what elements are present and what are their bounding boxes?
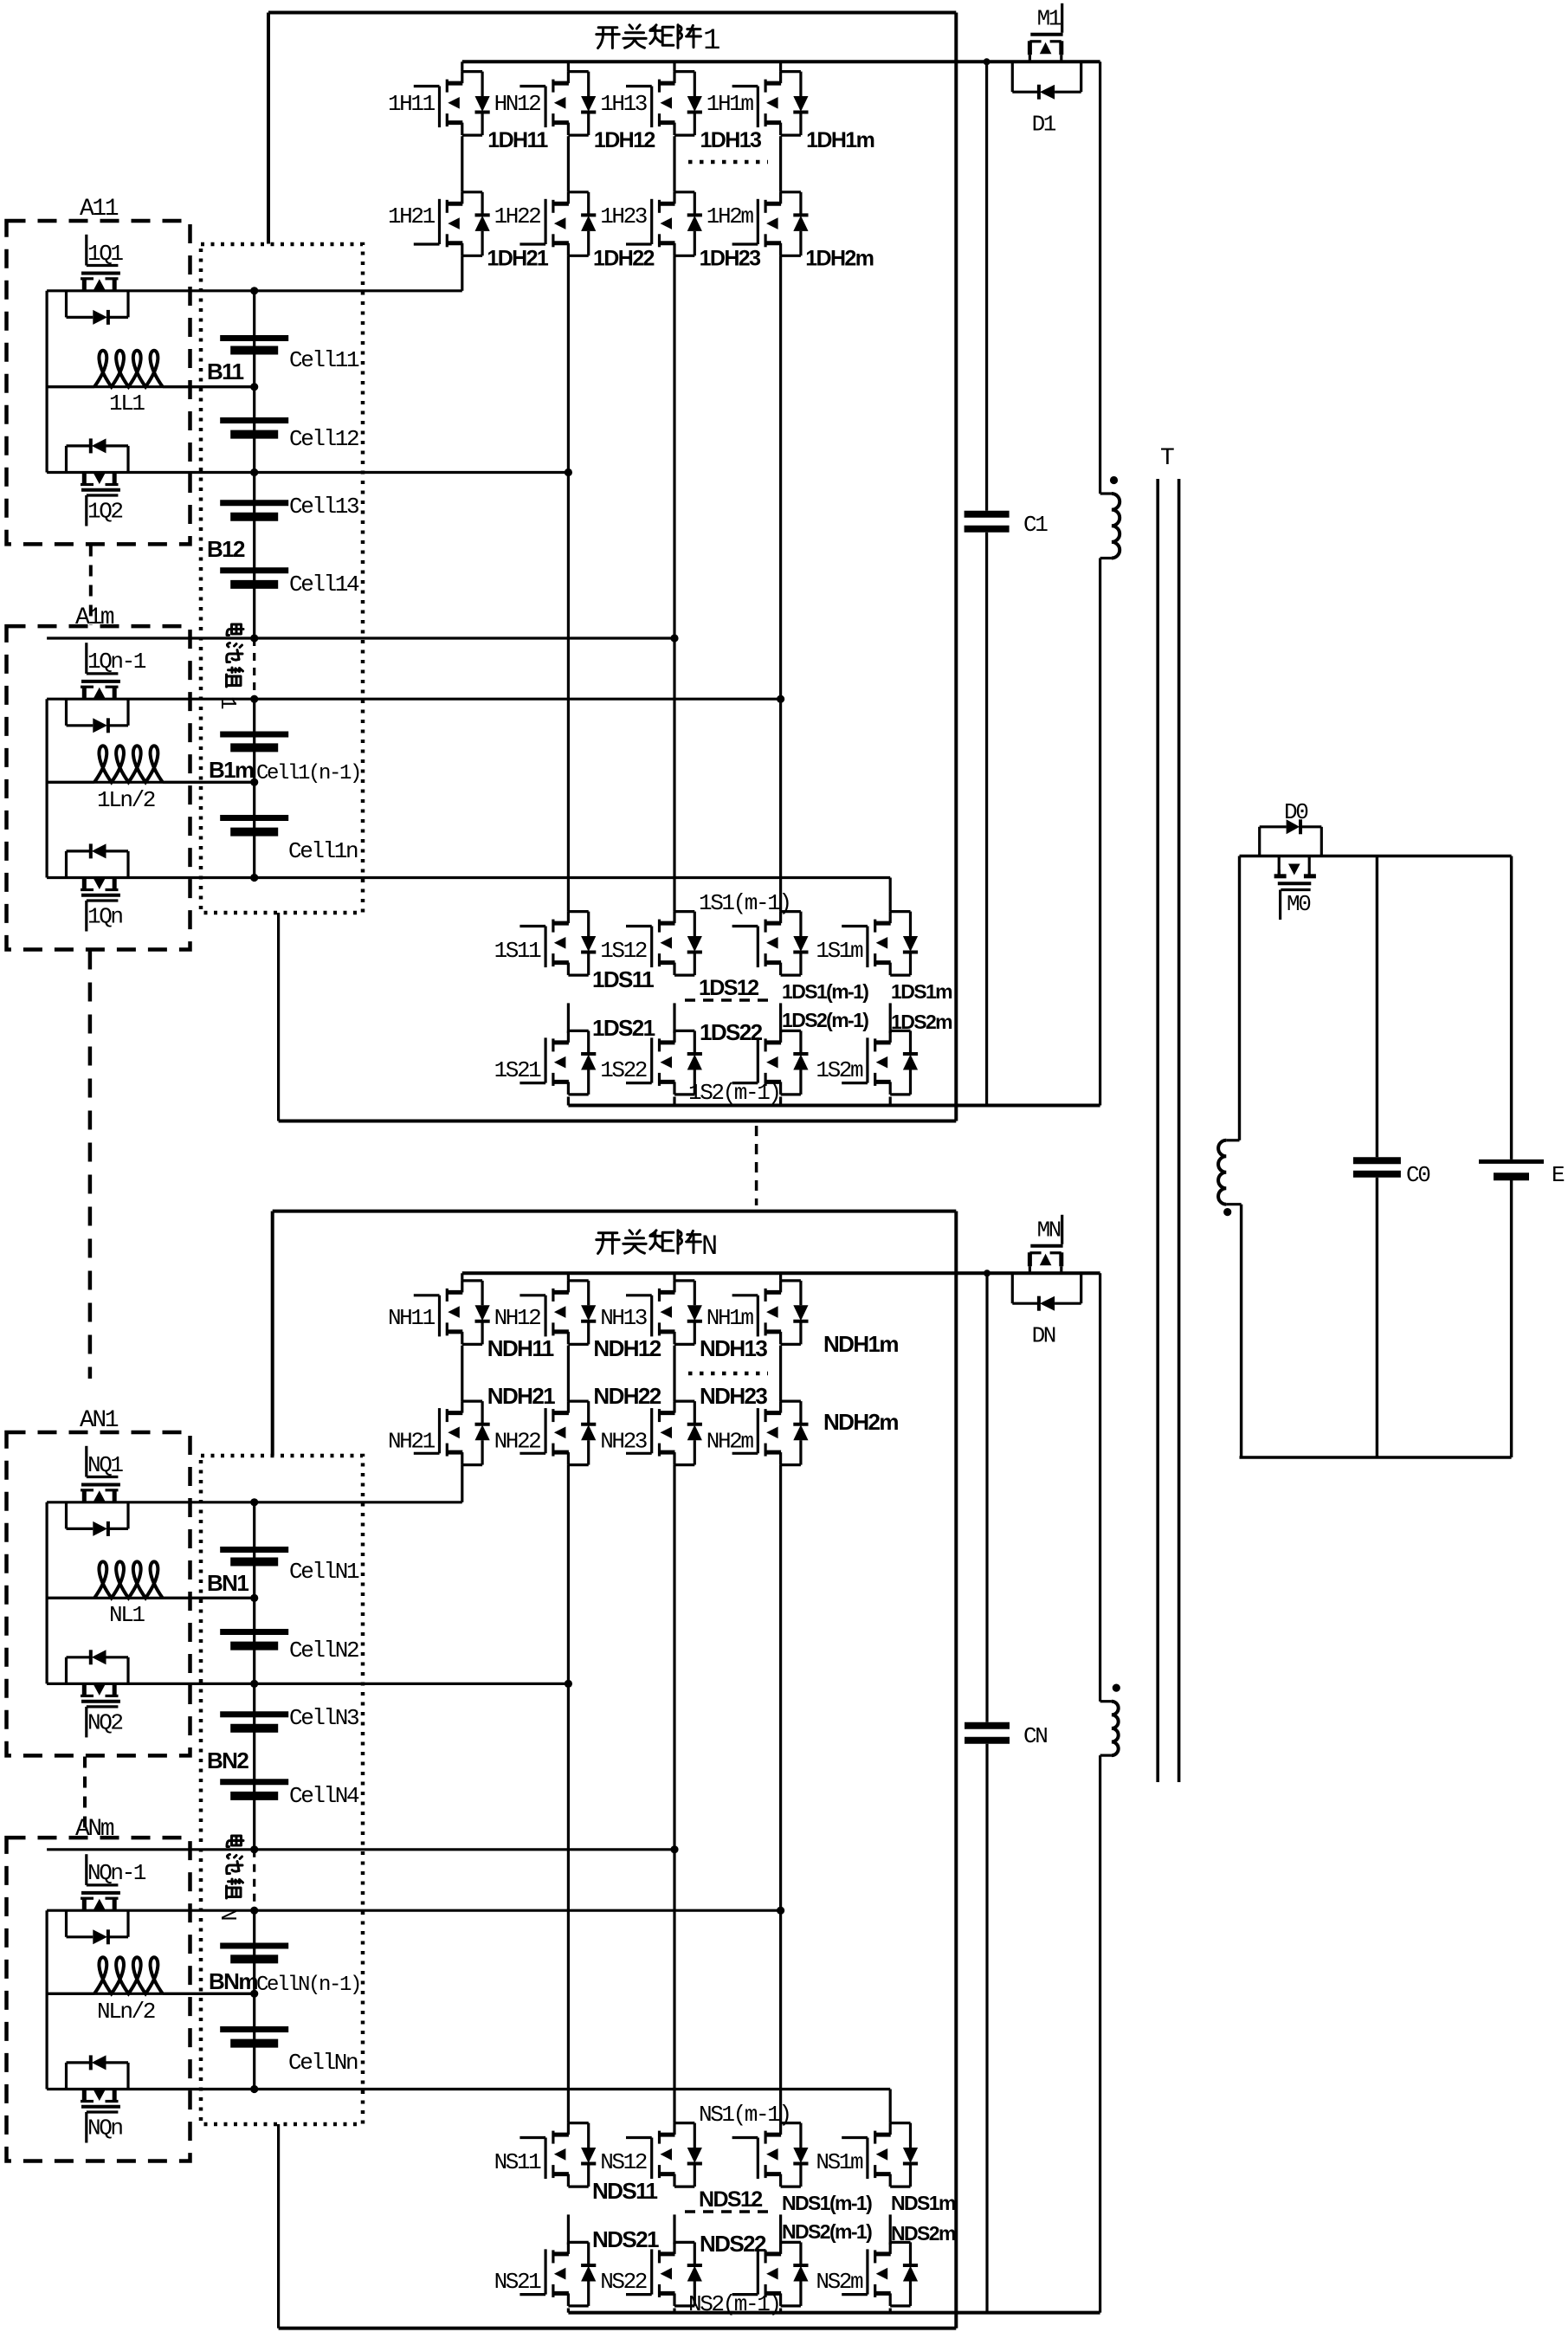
transistor 1H23 bbox=[626, 242, 652, 245]
column ellipsis dashes in S matrix N bbox=[685, 2210, 772, 2213]
junction BNm bbox=[250, 1990, 258, 1998]
body diode of NQ2 bbox=[65, 1657, 68, 1684]
svg-text:CellN(n-1): CellN(n-1) bbox=[256, 1974, 360, 1997]
ellipsis dashed below A1m bbox=[88, 951, 93, 1379]
transistor M1 bbox=[1061, 3, 1063, 33]
wire C0 branch lower bbox=[1376, 1178, 1378, 1457]
junction B1m bbox=[250, 778, 258, 786]
svg-text:NH2m: NH2m bbox=[707, 1428, 754, 1454]
svg-text:CellN4: CellN4 bbox=[289, 1783, 359, 1809]
junction rail col2 tap2 N bbox=[565, 1680, 572, 1688]
svg-text:1DH11: 1DH11 bbox=[487, 128, 548, 152]
polarity dot secondary bbox=[1223, 1208, 1231, 1216]
battery cell CellN(n-1) bbox=[220, 1943, 288, 1949]
ellipsis dashed between AN1 and ANm bbox=[83, 1757, 87, 1838]
wire MN drain to primary N bbox=[1099, 1273, 1101, 1701]
transformer core bar left bbox=[1156, 479, 1159, 1782]
transistor NH11 bbox=[414, 1294, 440, 1296]
wire S col4 drain from bus corner bbox=[889, 878, 892, 912]
svg-text:1S22: 1S22 bbox=[600, 1057, 647, 1083]
svg-text:1DH21: 1DH21 bbox=[487, 247, 549, 271]
wire output loop bottom edge bbox=[1240, 1456, 1512, 1458]
transformer core bar right bbox=[1178, 479, 1181, 1782]
diode D of 1H13 bbox=[694, 72, 696, 96]
column ellipsis dots in H matrix bbox=[688, 160, 768, 165]
transistor 1H11 bbox=[414, 85, 440, 87]
transistor 1S21 bbox=[519, 1082, 545, 1084]
svg-text:1S1m: 1S1m bbox=[816, 938, 863, 964]
junction battery top bbox=[250, 287, 258, 294]
transistor NS22 bbox=[626, 2293, 652, 2296]
inductor NLn/2 bbox=[47, 1993, 94, 1995]
diode D of 1S14 bbox=[909, 912, 912, 936]
wire tap3 N bbox=[47, 1848, 674, 1851]
polarity dot primary top bbox=[1110, 476, 1118, 484]
transistor NS23 bbox=[732, 2293, 758, 2296]
wire output loop right upper bbox=[1510, 856, 1513, 1160]
svg-text:1Ln/2: 1Ln/2 bbox=[97, 787, 155, 813]
inductor NL1 bbox=[47, 1597, 94, 1599]
wire drain stub from bus N bbox=[779, 1273, 782, 1281]
title 开关矩阵N bbox=[597, 1233, 619, 1254]
diode D of NS24 bbox=[909, 2242, 912, 2265]
wire S rail to source bus N bbox=[889, 2309, 892, 2313]
wire S rail to source bus bbox=[779, 1097, 782, 1106]
wire primary return bbox=[1099, 559, 1101, 1106]
junction battery top N bbox=[250, 1498, 258, 1506]
wire S col4 drain from bus corner N bbox=[889, 2090, 892, 2123]
svg-text:1Qn-1: 1Qn-1 bbox=[87, 649, 146, 675]
wire drain stub from bus N bbox=[567, 1273, 570, 1281]
junction battery tap3 bbox=[250, 634, 258, 642]
wire battery bottom tap / S drain bus N bbox=[47, 2088, 890, 2090]
svg-text:NS1(m-1): NS1(m-1) bbox=[699, 2102, 790, 2128]
wire drain stub from bus N bbox=[673, 1273, 675, 1281]
wire secondary jog top bbox=[1226, 1139, 1239, 1141]
svg-text:1DS21: 1DS21 bbox=[592, 1015, 655, 1041]
svg-text:B11: B11 bbox=[207, 359, 244, 384]
body diode of 1Qn bbox=[65, 851, 68, 878]
wire rail inter-row bbox=[567, 136, 570, 192]
svg-text:A11: A11 bbox=[80, 196, 119, 223]
svg-text:NDH21: NDH21 bbox=[487, 1383, 555, 1409]
svg-text:AN1: AN1 bbox=[80, 1407, 119, 1434]
diode D of 1H2m bbox=[799, 192, 802, 216]
transistor NS11 bbox=[519, 2136, 545, 2139]
wire secondary jog bottom bbox=[1226, 1203, 1241, 1205]
junction rail col3 tap3 N bbox=[670, 1845, 678, 1853]
polarity dot primary N top bbox=[1113, 1684, 1120, 1692]
svg-text:NDS12: NDS12 bbox=[699, 2187, 762, 2212]
transistor 1H1m bbox=[732, 85, 758, 87]
transistor NS24 bbox=[842, 2293, 868, 2296]
diode D of 1H22 bbox=[587, 192, 590, 216]
transistor MN bbox=[1061, 1215, 1063, 1244]
wire output loop left lower bbox=[1240, 1205, 1242, 1457]
transistor NQn-1 bbox=[85, 1854, 87, 1885]
wire S rail to source bus N bbox=[779, 2309, 782, 2313]
transistor 1S11 bbox=[519, 925, 545, 927]
wire CN branch bbox=[985, 1273, 988, 1722]
transistor 1Q1 bbox=[85, 235, 87, 266]
diode D of 1S24 bbox=[909, 1030, 912, 1054]
wire A11 left rail bbox=[45, 291, 48, 473]
wire output loop left upper bbox=[1238, 856, 1241, 1140]
wire rail col1 to battery top tap N bbox=[461, 1465, 463, 1502]
svg-text:NDH13: NDH13 bbox=[700, 1335, 767, 1361]
svg-text:1H1m: 1H1m bbox=[707, 91, 754, 117]
svg-text:1DS22: 1DS22 bbox=[700, 1019, 763, 1045]
wire battery top tap bbox=[47, 289, 462, 292]
ellipsis dashed between A11 and A1m bbox=[89, 546, 93, 626]
svg-text:D0: D0 bbox=[1284, 799, 1307, 825]
diode D of NH11 bbox=[481, 1281, 483, 1305]
svg-text:1: 1 bbox=[703, 25, 720, 58]
wire H drain bus bbox=[462, 60, 1100, 63]
wire M1 drain to primary bbox=[1099, 61, 1101, 494]
svg-text:DN: DN bbox=[1032, 1322, 1055, 1348]
diode D of NH1m bbox=[799, 1281, 802, 1305]
diode D of NS11 bbox=[587, 2123, 590, 2148]
svg-text:1Q2: 1Q2 bbox=[87, 499, 122, 525]
transformer secondary winding bbox=[1218, 1140, 1226, 1205]
svg-text:1S11: 1S11 bbox=[494, 938, 542, 964]
vertical label 电池组N bbox=[227, 1836, 243, 1847]
svg-text:NS2m: NS2m bbox=[816, 2269, 863, 2295]
wire H drain bus N bbox=[462, 1271, 1100, 1275]
wire S rail to source bus bbox=[673, 1097, 675, 1106]
junction C1 top bbox=[984, 58, 990, 65]
svg-text:NH22: NH22 bbox=[494, 1428, 541, 1454]
wire rail col1 row1-row2 bbox=[461, 136, 463, 192]
svg-text:1DS1m: 1DS1m bbox=[891, 980, 952, 1003]
column ellipsis dashes in S matrix bbox=[685, 998, 772, 1002]
wire tap2 bbox=[47, 471, 568, 474]
svg-text:Cell1(n-1): Cell1(n-1) bbox=[256, 762, 360, 785]
transistor 1Qn-1 bbox=[85, 643, 87, 674]
diode D of NH22 bbox=[587, 1401, 590, 1424]
wire rail down to S matrix bbox=[779, 255, 782, 911]
svg-text:NS1m: NS1m bbox=[816, 2149, 863, 2175]
svg-text:T: T bbox=[1160, 445, 1174, 472]
transistor NH22 bbox=[519, 1452, 545, 1455]
wire S rail to source bus bbox=[889, 1097, 892, 1106]
wire inductor tap BNm bbox=[47, 1993, 255, 1995]
transistor 1S14 bbox=[842, 925, 868, 927]
body diode of 1Q2 bbox=[65, 446, 68, 473]
transistor 1S24 bbox=[842, 1082, 868, 1084]
transistor 1S23 bbox=[732, 1082, 758, 1084]
svg-text:B1m: B1m bbox=[209, 757, 254, 783]
svg-text:M0: M0 bbox=[1287, 891, 1310, 917]
junction battery tap3 N bbox=[250, 1845, 258, 1853]
transistor 1H21 bbox=[414, 242, 440, 245]
transistor NS14 bbox=[842, 2136, 868, 2139]
transistor NH21 bbox=[414, 1452, 440, 1455]
junction B11 bbox=[250, 383, 258, 391]
wire S rail inter-row bbox=[889, 1003, 892, 1033]
svg-text:NDH1m: NDH1m bbox=[823, 1331, 898, 1357]
wire tap3 bbox=[47, 636, 674, 639]
body diode of 1Q1 bbox=[65, 291, 68, 318]
wire inductor tap B11 bbox=[47, 385, 255, 388]
battery cell CellN3 bbox=[220, 1711, 288, 1717]
wire S rail inter-row N bbox=[889, 2214, 892, 2245]
junction rail col4 tap4 N bbox=[777, 1907, 784, 1915]
wire inductor tap BN1 bbox=[47, 1597, 255, 1599]
diode D of NH2m bbox=[799, 1401, 802, 1424]
wire battery string vertical N bbox=[253, 1502, 255, 1850]
transistor NH23 bbox=[626, 1452, 652, 1455]
transistor NH1m bbox=[732, 1294, 758, 1296]
wire inductor tap B1m bbox=[47, 781, 255, 784]
svg-text:MN: MN bbox=[1037, 1217, 1061, 1243]
svg-text:NDH11: NDH11 bbox=[487, 1335, 554, 1361]
cell balancer box ANm dashed bbox=[7, 1838, 190, 2161]
svg-text:NH11: NH11 bbox=[388, 1305, 436, 1331]
svg-text:NQ1: NQ1 bbox=[87, 1452, 123, 1478]
junction battery tap2 bbox=[250, 468, 258, 476]
svg-text:1DS2m: 1DS2m bbox=[891, 1011, 952, 1033]
wire rail col1 inter-row N bbox=[461, 1346, 463, 1402]
svg-text:NDS21: NDS21 bbox=[592, 2226, 659, 2252]
wire A1m left rail bbox=[45, 699, 48, 877]
svg-text:CellN2: CellN2 bbox=[289, 1638, 358, 1663]
svg-text:1S2(m-1): 1S2(m-1) bbox=[688, 1080, 780, 1106]
wire C1 branch bbox=[985, 61, 988, 511]
svg-text:1H11: 1H11 bbox=[388, 91, 436, 117]
diode D of 1H1m bbox=[799, 72, 802, 96]
svg-text:1DH23: 1DH23 bbox=[700, 247, 761, 271]
wire S source bus N bbox=[568, 2311, 1100, 2315]
wire C0 branch upper bbox=[1376, 856, 1378, 1158]
wire primary N jog top bbox=[1100, 1700, 1112, 1702]
wire rail col1 to battery top tap bbox=[461, 255, 463, 291]
diode D of 1S21 bbox=[587, 1030, 590, 1054]
transistor HN12 bbox=[519, 85, 545, 87]
svg-text:NH12: NH12 bbox=[494, 1305, 541, 1331]
svg-text:NH13: NH13 bbox=[600, 1305, 647, 1331]
battery E bbox=[1479, 1160, 1544, 1164]
svg-text:1Qn: 1Qn bbox=[87, 904, 122, 930]
transformer primary winding bottom bbox=[1112, 1702, 1119, 1755]
diode D of NH12 bbox=[587, 1281, 590, 1305]
wire primary jog bottom bbox=[1100, 557, 1112, 559]
diode D of 1H11 bbox=[481, 72, 483, 96]
svg-text:BN2: BN2 bbox=[207, 1747, 248, 1773]
svg-text:Cell12: Cell12 bbox=[289, 426, 358, 452]
transistor NQ2 bbox=[82, 1683, 87, 1696]
svg-text:1H21: 1H21 bbox=[388, 203, 436, 229]
svg-text:M1: M1 bbox=[1037, 5, 1061, 31]
wire rail down to S matrix N bbox=[567, 1465, 570, 2123]
junction CN top bbox=[984, 1269, 990, 1276]
wire S rail to source bus N bbox=[673, 2309, 675, 2313]
transistor 1S22 bbox=[626, 1082, 652, 1084]
diode D of NS21 bbox=[587, 2242, 590, 2265]
junction battery tap4 N bbox=[250, 1907, 258, 1915]
junction battery tap2 N bbox=[250, 1680, 258, 1688]
svg-text:1DS12: 1DS12 bbox=[699, 976, 758, 1000]
diode D of 1S11 bbox=[587, 912, 590, 936]
svg-text:1DS11: 1DS11 bbox=[592, 966, 654, 992]
svg-text:N: N bbox=[701, 1231, 718, 1263]
wire drain stub from bus bbox=[779, 61, 782, 71]
battery cell CellN1 bbox=[220, 1547, 288, 1553]
switch matrix N enclosure border bbox=[273, 1210, 957, 1213]
junction battery bottom bbox=[250, 874, 258, 882]
wire AN1 left rail bbox=[45, 1502, 48, 1684]
wire rail down to S matrix N bbox=[673, 1465, 675, 2123]
wire S rail inter-row N bbox=[779, 2214, 782, 2245]
wire drain stub from bus bbox=[673, 61, 675, 71]
wire battery bottom tap / S drain bus bbox=[47, 876, 890, 879]
capacitor C0 bbox=[1353, 1157, 1401, 1164]
transistor NS13 bbox=[732, 2136, 758, 2139]
diode D of 1S22 bbox=[694, 1030, 696, 1054]
wire battery bottom exit N bbox=[277, 2124, 280, 2329]
svg-text:NH23: NH23 bbox=[600, 1428, 647, 1454]
svg-text:NS22: NS22 bbox=[600, 2269, 647, 2295]
svg-text:NDH2m: NDH2m bbox=[823, 1409, 898, 1435]
svg-text:CellN1: CellN1 bbox=[289, 1559, 359, 1585]
transistor 1H2m bbox=[732, 242, 758, 245]
body diode of 1Qn-1 bbox=[65, 699, 68, 726]
switch matrix 1 enclosure border bbox=[268, 11, 956, 15]
wire rail inter-row bbox=[673, 136, 675, 192]
svg-text:1H22: 1H22 bbox=[494, 203, 541, 229]
battery cell CellN2 bbox=[220, 1629, 288, 1635]
wire tap4 bbox=[47, 698, 781, 701]
transistor 1H13 bbox=[626, 85, 652, 87]
transistor 1S13 bbox=[732, 925, 758, 927]
svg-text:1DS1(m-1): 1DS1(m-1) bbox=[782, 980, 868, 1003]
wire ANm left rail bbox=[45, 1910, 48, 2089]
column ellipsis dots in H matrix N bbox=[688, 1372, 768, 1376]
wire rail down to S matrix N bbox=[779, 1465, 782, 2123]
battery group dotted box bbox=[201, 244, 363, 913]
junction rail col4 tap4 bbox=[777, 695, 784, 703]
wire tap2 N bbox=[47, 1683, 568, 1685]
svg-text:Cell13: Cell13 bbox=[289, 494, 358, 520]
body diode of NQ1 bbox=[65, 1502, 68, 1529]
svg-text:E: E bbox=[1552, 1162, 1565, 1188]
diode D of 1H23 bbox=[694, 192, 696, 216]
wire primary jog top bbox=[1100, 492, 1112, 494]
wire rail inter-row N bbox=[779, 1346, 782, 1402]
diode D of NH23 bbox=[694, 1401, 696, 1424]
svg-text:Cell1n: Cell1n bbox=[288, 838, 358, 864]
junction battery bottom N bbox=[250, 2085, 258, 2093]
battery cell Cell11(n-1) bbox=[220, 732, 288, 738]
svg-text:1S21: 1S21 bbox=[494, 1057, 542, 1083]
junction battery tap4 bbox=[250, 695, 258, 703]
wire rail inter-row N bbox=[673, 1346, 675, 1402]
wire drain stub from bus N bbox=[461, 1273, 463, 1281]
wire S rail inter-row N bbox=[567, 2214, 570, 2245]
wire drain stub from bus bbox=[567, 61, 570, 71]
svg-text:1DH22: 1DH22 bbox=[593, 247, 655, 271]
transistor NQn bbox=[82, 2090, 87, 2103]
svg-text:1DS2(m-1): 1DS2(m-1) bbox=[782, 1009, 868, 1031]
svg-text:NL1: NL1 bbox=[109, 1602, 145, 1628]
inductor 1L1 bbox=[47, 385, 94, 388]
transistor NH13 bbox=[626, 1294, 652, 1296]
diode D1 bbox=[1011, 61, 1014, 92]
wire primary N jog bottom bbox=[1100, 1754, 1112, 1756]
wire tap4 N bbox=[47, 1909, 781, 1912]
wire S rail inter-row N bbox=[673, 2214, 675, 2245]
svg-text:BN1: BN1 bbox=[207, 1570, 248, 1596]
wire primary N return bbox=[1099, 1755, 1101, 2313]
wire battery top tap N bbox=[47, 1501, 462, 1503]
cell balancer box A1m dashed bbox=[7, 626, 190, 949]
vertical label 电池组1 bbox=[227, 624, 243, 636]
battery group N dotted box bbox=[201, 1456, 363, 2124]
diode D of 1S13 bbox=[799, 912, 802, 936]
wire output loop right lower bbox=[1510, 1180, 1513, 1457]
transistor 1S12 bbox=[626, 925, 652, 927]
diode D of 1H21 bbox=[481, 192, 483, 216]
wire battery bottom exit bbox=[277, 913, 280, 1121]
svg-text:NLn/2: NLn/2 bbox=[97, 1999, 155, 2025]
svg-text:BNm: BNm bbox=[209, 1968, 257, 1994]
svg-text:1H13: 1H13 bbox=[600, 91, 647, 117]
svg-text:NDH22: NDH22 bbox=[593, 1383, 661, 1409]
diode D of NS13 bbox=[799, 2123, 802, 2148]
diode D of NH13 bbox=[694, 1281, 696, 1305]
wire battery string vertical bbox=[253, 291, 255, 638]
battery cell Cell13 bbox=[220, 500, 288, 506]
junction BN1 bbox=[250, 1594, 258, 1602]
capacitor CN bbox=[965, 1722, 1010, 1729]
svg-text:C1: C1 bbox=[1023, 512, 1048, 538]
transistor NH2m bbox=[732, 1452, 758, 1455]
svg-text:NS11: NS11 bbox=[494, 2149, 542, 2175]
battery cell Cell14 bbox=[220, 567, 288, 573]
wire rail down to S matrix bbox=[567, 255, 570, 911]
svg-text:1DH2m: 1DH2m bbox=[805, 247, 874, 271]
svg-text:Cell14: Cell14 bbox=[289, 572, 359, 598]
svg-text:NDS1m: NDS1m bbox=[891, 2192, 956, 2214]
svg-text:CellNn: CellNn bbox=[288, 2050, 358, 2076]
diode D of NH21 bbox=[481, 1401, 483, 1424]
svg-text:CellN3: CellN3 bbox=[289, 1705, 358, 1731]
svg-text:NH21: NH21 bbox=[388, 1428, 436, 1454]
diode D of NS12 bbox=[694, 2123, 696, 2148]
transformer primary winding top bbox=[1112, 494, 1120, 558]
cell balancer box AN1 dashed bbox=[7, 1432, 190, 1755]
svg-text:Cell11: Cell11 bbox=[289, 347, 359, 373]
wire S rail to source bus bbox=[567, 1097, 570, 1106]
svg-text:NDS2m: NDS2m bbox=[891, 2222, 956, 2245]
wire rail down to S matrix bbox=[673, 255, 675, 911]
junction rail col3 tap3 bbox=[670, 634, 678, 642]
svg-text:A1m: A1m bbox=[75, 604, 114, 631]
wire S source bus bbox=[568, 1104, 1100, 1108]
wire S rail inter-row bbox=[779, 1003, 782, 1033]
svg-text:NH1m: NH1m bbox=[707, 1305, 754, 1331]
svg-text:1S2m: 1S2m bbox=[816, 1057, 863, 1083]
svg-text:NQ2: NQ2 bbox=[87, 1709, 122, 1735]
diode D of 1S12 bbox=[694, 912, 696, 936]
svg-text:NQn-1: NQn-1 bbox=[87, 1860, 146, 1886]
junction rail col2 tap2 bbox=[565, 468, 572, 476]
transistor 1Q2 bbox=[82, 473, 87, 486]
battery cell Cell11n bbox=[220, 815, 288, 821]
wire S rail inter-row bbox=[673, 1003, 675, 1033]
wire S rail to source bus N bbox=[567, 2309, 570, 2313]
